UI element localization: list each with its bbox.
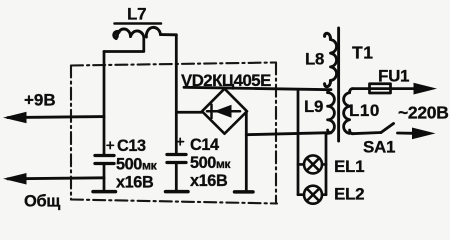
svg-text:T1: T1	[352, 43, 373, 63]
svg-text:C14: C14	[190, 136, 219, 154]
wire left rail to C13	[103, 52, 106, 155]
svg-text:500мк: 500мк	[190, 154, 231, 172]
chassis ground (VD2)	[235, 190, 254, 194]
lamp EL2	[298, 186, 326, 204]
switch SA1	[352, 133, 381, 134]
svg-text:FU1: FU1	[378, 67, 409, 86]
winding L9	[328, 90, 335, 134]
svg-text:L8: L8	[305, 50, 324, 69]
svg-text:+9В: +9В	[24, 91, 56, 110]
wire lamp ladder left rail	[297, 89, 300, 195]
wire +9V output	[8, 117, 104, 118]
capacitor C14	[167, 155, 186, 163]
svg-text:SA1: SA1	[363, 138, 395, 157]
svg-text:C13: C13	[117, 137, 146, 155]
svg-text:Общ: Общ	[24, 193, 60, 211]
winding L10	[344, 89, 353, 134]
fuse FU1	[352, 87, 414, 90]
svg-text:~220В: ~220В	[398, 103, 449, 123]
chassis ground (C14)	[166, 190, 189, 194]
wire AC2 (bridge right to L9 bottom / lamps)	[246, 133, 330, 135]
svg-text:L10: L10	[349, 101, 380, 120]
wire common (Obshch)	[8, 178, 104, 179]
arrow common	[3, 173, 27, 185]
wire bridge minus down	[245, 111, 248, 190]
shield enclosure (dash-dot box)	[71, 63, 277, 204]
svg-text:L7: L7	[127, 5, 146, 24]
svg-text:х16В: х16В	[190, 172, 228, 190]
lamp EL1	[298, 155, 326, 173]
svg-text:L9: L9	[304, 97, 323, 116]
winding L8	[325, 33, 337, 86]
wire right rail L7 to C14	[175, 35, 178, 153]
wire AC top (bridge to L9 top)	[184, 87, 330, 89]
wire L7 tap down-left to C13 rail	[104, 37, 144, 52]
wire bridge plus output	[176, 111, 202, 114]
bridge rectifier VD2 KTs405E	[202, 89, 247, 134]
svg-text:EL2: EL2	[334, 185, 364, 204]
arrow to mains (fuse side)	[414, 83, 438, 95]
svg-text:500мк: 500мк	[116, 156, 158, 174]
wire lamp ladder right rail	[325, 133, 328, 195]
arrow +9V	[3, 112, 27, 124]
svg-text:х16В: х16В	[116, 174, 154, 192]
arrow to mains (switch side)	[412, 128, 436, 140]
inductor L7	[114, 27, 176, 38]
chassis ground (C13)	[93, 190, 116, 194]
transformer T1 core	[337, 28, 340, 141]
capacitor C13	[95, 156, 114, 164]
svg-text:EL1: EL1	[334, 157, 364, 176]
